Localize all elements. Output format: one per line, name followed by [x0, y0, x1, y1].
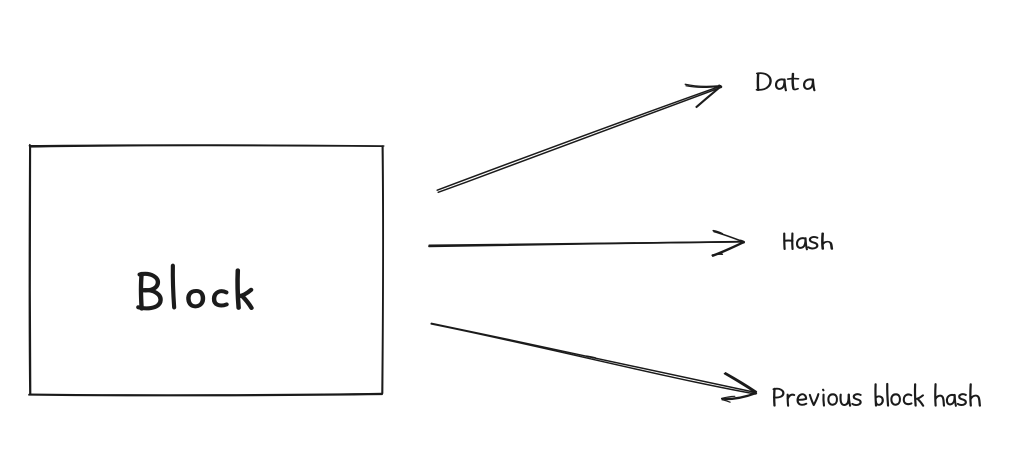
text Data: [757, 73, 815, 90]
text Previous block hash: [774, 384, 980, 406]
block rectangle: [29, 145, 384, 396]
arrow to Previous block hash: [431, 323, 756, 402]
text Block: [138, 266, 251, 309]
arrow to Hash: [429, 231, 744, 257]
arrow to Data: [437, 84, 721, 192]
text Hash: [784, 233, 832, 249]
